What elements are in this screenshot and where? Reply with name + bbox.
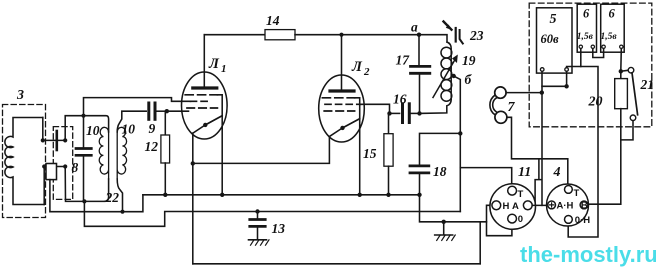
wire lower post down to cap8 bottom (65, 167, 84, 202)
wire phones bottom to T pin 4 (507, 117, 568, 186)
node Л1 right leg on bus (220, 193, 224, 197)
resistor 15 (388, 113, 390, 133)
svg-text:1,5в: 1,5в (577, 32, 594, 42)
pin 0H 4 (565, 216, 573, 224)
rheostat 20 (615, 79, 628, 109)
capacitor 13 (257, 212, 259, 219)
switch 21 link (621, 70, 628, 71)
svg-text:7: 7 (508, 100, 516, 115)
switch 21 lever (632, 73, 638, 115)
triode Л2 (319, 35, 365, 142)
svg-text:20: 20 (588, 95, 603, 110)
svg-text:12: 12 (145, 139, 159, 154)
wire rail R14 to node a (295, 34, 419, 36)
node battery5 right junction (564, 84, 568, 88)
node cap8 bottom junction (82, 199, 86, 203)
grid row1 Л2 (322, 97, 354, 99)
svg-text:6: 6 (583, 7, 590, 21)
filament Л2 (329, 119, 359, 137)
pin B 4 (580, 201, 588, 209)
battery 6 first (577, 4, 596, 52)
bottom rail (193, 263, 480, 265)
grid strap to filament Л2 (343, 98, 360, 128)
anode lead Л1 (203, 35, 205, 87)
common bus wire (143, 194, 420, 196)
grid row3 Л1 (187, 107, 217, 109)
svg-text:13: 13 (272, 221, 286, 236)
svg-text:23: 23 (469, 28, 484, 43)
node tap b on coil (452, 74, 456, 78)
svg-text:1: 1 (221, 63, 227, 75)
node cap18 bottom bus end (417, 193, 421, 197)
svg-text:0·Н: 0·Н (575, 215, 590, 226)
terminals battery 6 second (602, 45, 605, 48)
wire upper post to junction (65, 116, 83, 141)
resistor 12 (164, 111, 166, 135)
wire bottom rail riser (479, 222, 481, 264)
wire HA pin riser (487, 205, 512, 235)
svg-text:Л: Л (351, 59, 363, 75)
switch 21 bottom contact (630, 115, 636, 121)
connector 4 (547, 184, 589, 226)
wire Л1 filament left leg (192, 133, 194, 264)
node ground tap (442, 220, 446, 224)
terminal battery 5 left (540, 68, 544, 72)
node filament apex Л1 (203, 123, 207, 127)
pin +AH 4 (548, 201, 556, 209)
node antenna lower terminal (42, 164, 46, 168)
triode Л1 (182, 35, 228, 139)
capacitor 8 (83, 116, 85, 148)
wire lower pole (44, 166, 65, 168)
wire node a to switch (419, 35, 447, 42)
wire tap b down (454, 76, 461, 212)
wire left rail (50, 180, 143, 212)
node antenna upper terminal (41, 138, 45, 142)
node receiver upper post (63, 138, 67, 142)
transformer winding 10 right (117, 127, 126, 179)
node grid junction (165, 109, 169, 113)
node R12 bottom (163, 193, 167, 197)
plus mark in pin (550, 203, 554, 207)
wire filament minus under battery (567, 67, 598, 238)
wire series bridge 6-6 (593, 49, 604, 58)
connector 11 (490, 184, 536, 230)
svg-text:14: 14 (266, 13, 280, 28)
node filament apex Л2 (340, 126, 344, 130)
wire filament rail to Л2 (193, 137, 330, 164)
wire antenna bottom right (43, 167, 45, 205)
svg-text:а: а (411, 20, 418, 35)
svg-text:60в: 60в (541, 32, 560, 46)
resistor 14 (265, 30, 295, 40)
pin 0 11 (508, 214, 517, 223)
wire Л2 grid lead to cap16 node (361, 104, 390, 113)
svg-text:0: 0 (518, 214, 523, 225)
wire branch to connector plate net (535, 159, 542, 206)
svg-text:5: 5 (550, 12, 557, 27)
svg-text:22: 22 (105, 190, 120, 205)
svg-text:8: 8 (72, 160, 79, 175)
wire cap8 junction to winding 10 left bottom (84, 179, 108, 201)
node junction cap8 top (81, 114, 85, 118)
svg-text:10: 10 (122, 122, 136, 137)
top rail plate supply (204, 34, 265, 36)
anode bar Л1 (193, 86, 217, 89)
battery dashed box (529, 3, 652, 127)
connector dashed box (53, 127, 72, 200)
node receiver lower post (63, 164, 67, 168)
pin T 4 (565, 186, 573, 194)
wire battery5 left lead down (541, 71, 543, 205)
svg-text:19: 19 (462, 53, 476, 68)
grid row1 Л1 (185, 94, 217, 96)
wire Л1 filament right leg (221, 116, 223, 195)
svg-text:А·Н: А·Н (557, 201, 574, 212)
wire antenna top right (42, 118, 44, 141)
capacitor 9 (147, 103, 150, 119)
filament Л1 (193, 116, 222, 134)
wire tuned cold end zigzag (84, 201, 460, 226)
svg-text:Л: Л (208, 56, 220, 72)
capacitor 16 (390, 112, 400, 114)
anode bar Л2 (330, 89, 354, 92)
node capacitor 13 top (255, 209, 259, 213)
ground symbol 2 (443, 222, 445, 235)
svg-text:4: 4 (553, 165, 561, 180)
svg-text:1,5в: 1,5в (601, 32, 618, 42)
node winding bottom on rail (120, 210, 124, 214)
svg-text:Т: Т (574, 188, 580, 199)
ground under 13 (249, 239, 267, 241)
pin right 11 (523, 201, 532, 210)
wire grid junction to tube (167, 110, 189, 112)
socket lower pole (46, 164, 57, 180)
wire 6a left lead (580, 49, 582, 67)
wire 6b right lead to rheostat (620, 49, 623, 79)
wire switch21 bottom down (621, 121, 633, 140)
headphones 7 (490, 87, 507, 123)
wire rheostat bottom to B pin (588, 109, 621, 205)
terminal battery 5 right (565, 68, 569, 72)
node Л2 right leg on bus (358, 193, 362, 197)
wire junction up to grid rail (84, 98, 191, 116)
node filament leg on rail (191, 161, 195, 165)
svg-text:15: 15 (363, 146, 377, 161)
capacitor 18 (420, 133, 461, 164)
wire winding right top to cap 9 (117, 111, 146, 132)
svg-text:В: В (581, 201, 588, 212)
wire upper pole (43, 139, 65, 141)
node cap16 left (387, 111, 391, 115)
wire junction to winding 10 left top (84, 116, 109, 132)
grid row3 Л2 (324, 110, 354, 112)
node rheostat top (619, 69, 623, 73)
switch 21 top contact (628, 67, 634, 73)
wire bus to ground tap (420, 195, 487, 222)
svg-text:6: 6 (609, 7, 616, 21)
grid row2 Л1 (191, 100, 212, 102)
svg-text:3: 3 (16, 88, 24, 103)
plug upper pole bar (55, 131, 58, 150)
wire phones top (506, 92, 542, 94)
antenna loop coil (5, 118, 44, 205)
svg-text:Т: Т (518, 189, 524, 200)
node Л2 anode junction (339, 33, 343, 37)
wire 11 right pin to 4 left pin (532, 204, 548, 206)
battery 5 (537, 8, 573, 73)
svg-text:21: 21 (640, 77, 655, 92)
grid strap to filament Л1 (205, 95, 222, 125)
node a (417, 33, 421, 37)
node phones top junction (540, 90, 544, 94)
svg-text:Н А: Н А (503, 201, 520, 212)
variometer coil 19 (441, 42, 452, 101)
anode lead Л2 (341, 35, 343, 90)
svg-text:17: 17 (396, 53, 411, 68)
svg-text:16: 16 (393, 92, 407, 107)
switch 23 (444, 22, 463, 44)
node b wire junction (458, 131, 462, 135)
terminals battery 6 first (579, 45, 582, 48)
node cap16 right (417, 111, 421, 115)
svg-text:9: 9 (149, 121, 156, 136)
pin T 11 (508, 186, 517, 195)
wire Л2 filament right leg (359, 119, 361, 195)
wire battery5 right to vertical (542, 71, 567, 86)
battery 6 second (601, 4, 625, 52)
capacitor 17 (418, 35, 420, 65)
frame antenna dashed box 3 (3, 105, 46, 218)
svg-text:10: 10 (86, 123, 100, 138)
arrow through coil 19 (433, 57, 457, 98)
svg-text:the-mostly.ru: the-mostly.ru (520, 242, 656, 267)
transformer winding 10 left (99, 127, 108, 179)
grid row2 Л2 (325, 103, 361, 105)
node R15 bottom (386, 193, 390, 197)
svg-text:2: 2 (363, 66, 370, 78)
wire winding right bottom to rail (117, 179, 122, 212)
wire phone tap to T pin 11 (460, 168, 511, 187)
svg-text:11: 11 (518, 165, 531, 180)
pin HA 11 (492, 201, 501, 210)
svg-text:18: 18 (433, 164, 447, 179)
